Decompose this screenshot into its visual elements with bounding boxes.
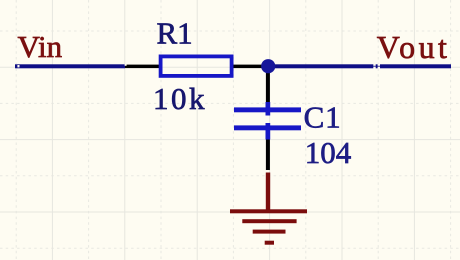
svg-text:10k: 10k — [153, 81, 207, 116]
svg-text:Vin: Vin — [18, 29, 63, 64]
svg-text:R1: R1 — [157, 16, 193, 51]
svg-text:Vout: Vout — [377, 29, 450, 65]
svg-text:104: 104 — [305, 135, 352, 170]
svg-text:C1: C1 — [304, 100, 342, 135]
